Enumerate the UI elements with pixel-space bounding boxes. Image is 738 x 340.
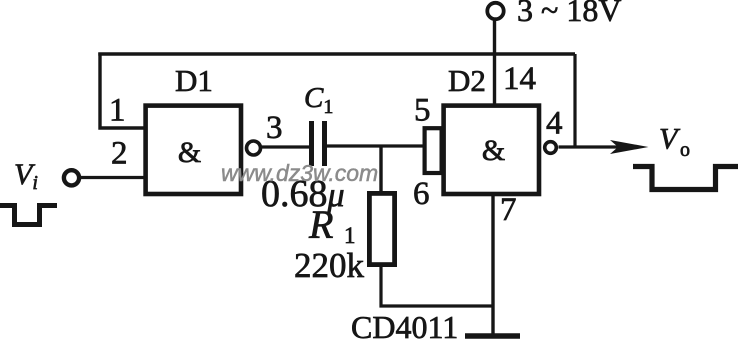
svg-text:2: 2 [111,136,128,172]
D2 input notch (pins 5 and 6) [425,128,442,173]
ground symbol [465,333,520,339]
capacitor C1 left plate [309,121,314,166]
wire: feedback right vertical to output node [573,54,576,147]
NAND gate D2 box [444,106,539,194]
wire: junction down to R1 [379,146,382,194]
wire: Vi terminal to pin 2 [80,176,145,179]
resistor R1 body [369,193,394,264]
D2 output inversion bubble [545,142,557,154]
power terminal circle [487,3,503,19]
wire: R1 bottom to ground rail [381,264,493,306]
output waveform [633,167,738,190]
svg-text:6: 6 [413,176,430,212]
wire: pin 7 down to ground [491,196,494,335]
svg-text:3 ~ 18V: 3 ~ 18V [517,0,621,28]
svg-text:7: 7 [500,192,517,228]
svg-text:Vi: Vi [14,158,38,194]
wire: feedback top horizontal [98,52,575,55]
wire: output line [559,145,621,148]
svg-text:o: o [680,139,690,161]
svg-text:www.dz3w.com: www.dz3w.com [221,160,378,186]
svg-text:C1: C1 [304,82,333,118]
output arrowhead [610,140,649,154]
wire: feedback left vertical down to pin 1 lead [100,53,145,129]
svg-text:D2: D2 [448,63,486,98]
wire: D1 bubble to C1 [262,145,311,148]
D1 output inversion bubble [247,141,261,155]
svg-text:4: 4 [546,106,563,142]
input waveform [0,206,57,225]
svg-text:CD4011: CD4011 [351,309,458,340]
wire: power to pin 14 of D2 [493,20,496,106]
svg-text:14: 14 [503,61,536,97]
wire: C1 to D2 inputs [327,144,425,147]
svg-text:&: & [482,134,505,167]
input terminal circle [64,170,79,185]
NAND gate D1 box [146,106,241,194]
svg-text:D1: D1 [175,63,213,98]
svg-text:5: 5 [414,93,431,129]
svg-text:1: 1 [109,93,126,129]
svg-text:220k: 220k [294,246,365,285]
svg-text:V: V [659,123,681,156]
svg-text:R: R [308,202,333,247]
capacitor C1 right plate [322,121,327,166]
svg-text:&: & [178,136,201,169]
svg-text:1: 1 [344,223,356,248]
svg-text:3: 3 [266,110,283,146]
